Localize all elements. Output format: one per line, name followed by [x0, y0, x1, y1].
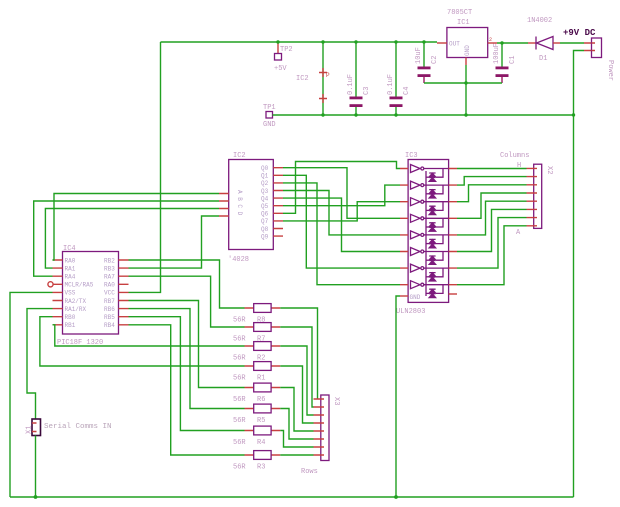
svg-text:VCC: VCC [104, 290, 115, 297]
IC2 power pins riser [296, 42, 330, 115]
wire RA1 to IC2 C [45, 209, 219, 269]
svg-text:C4: C4 [403, 87, 411, 95]
svg-text:R1: R1 [257, 375, 265, 383]
test point TP2 [274, 42, 293, 73]
IC2 output pins Q0-Q9 [261, 165, 283, 240]
svg-text:GND: GND [263, 121, 276, 129]
resistor R6 56R [233, 383, 280, 404]
IC3 internal buffers and diodes [411, 165, 449, 298]
wire RB1 to R2 [53, 325, 245, 346]
wire RX to serial connector [27, 309, 53, 419]
wire Q7 to ULN in3 [283, 202, 400, 221]
wire R7 to rows pin2 [280, 327, 313, 407]
svg-text:56R: 56R [233, 375, 246, 383]
wire ULN out3 to col pin3 [457, 185, 527, 202]
junction dots top rail [276, 40, 503, 44]
resistor R3 56R [233, 451, 280, 472]
svg-text:RB5: RB5 [104, 314, 115, 321]
svg-text:Q8: Q8 [261, 226, 269, 233]
svg-text:7805CT: 7805CT [447, 9, 472, 17]
svg-text:TP1: TP1 [263, 104, 276, 112]
columns connector X2 [500, 152, 553, 237]
wire IC3 GND to bottom rail [396, 296, 400, 497]
wire power connector GND pin down right side [574, 51, 585, 498]
svg-text:Q0: Q0 [261, 165, 269, 172]
wire Q6 to ULN in1 (top bridge) [283, 162, 400, 214]
IC4 pin labels [65, 257, 116, 329]
voltage regulator IC1 7805CT [437, 9, 497, 65]
svg-text:RB0: RB0 [65, 314, 76, 321]
wire GND rail [273, 114, 574, 116]
svg-text:RA4: RA4 [65, 274, 76, 281]
wire RB6 to R5 [129, 309, 245, 409]
svg-text:RB6: RB6 [104, 306, 115, 313]
diode D1 1N4002 [527, 17, 560, 63]
wire Q0 to ULN in4 [283, 168, 400, 219]
svg-text:X1: X1 [26, 426, 34, 434]
svg-text:D1: D1 [539, 55, 547, 63]
wire R2 to rows pin3 [280, 346, 313, 415]
svg-text:RA2/TX: RA2/TX [65, 298, 87, 305]
resistor R1 56R [233, 362, 280, 383]
resistor R5 56R [233, 404, 280, 425]
svg-text:X3: X3 [332, 397, 340, 405]
svg-text:56R: 56R [233, 336, 246, 344]
capacitor C2 10uF [415, 42, 466, 83]
svg-text:ULN2803: ULN2803 [396, 308, 425, 316]
svg-text:56R: 56R [233, 396, 246, 404]
wire regulator GND to rail [465, 65, 467, 115]
svg-text:56R: 56R [233, 317, 246, 325]
resistor R8 56R [233, 304, 280, 325]
svg-text:RA7: RA7 [104, 274, 115, 281]
wire Q1 to ULN in7 [283, 175, 400, 268]
wire Q2 to ULN in8 [283, 183, 400, 285]
wire ULN out6 to col pin6 [457, 209, 527, 251]
svg-text:Q7: Q7 [261, 218, 269, 225]
svg-text:Q6: Q6 [261, 211, 269, 218]
wire Q4 to ULN in6 [283, 198, 400, 251]
wire diode to power connector [560, 42, 584, 44]
svg-text:GND: GND [464, 45, 471, 56]
IC3 COM pin [449, 293, 457, 295]
wire R6 to rows pin5 [280, 388, 313, 432]
svg-text:Q3: Q3 [261, 188, 269, 195]
svg-text:Columns: Columns [500, 152, 529, 160]
svg-text:RA0: RA0 [65, 257, 76, 264]
IC4 left pins [53, 260, 63, 325]
svg-text:GND: GND [410, 294, 421, 301]
svg-text:IC2: IC2 [296, 75, 309, 83]
svg-text:56R: 56R [233, 417, 246, 425]
svg-text:Q9: Q9 [261, 233, 269, 240]
IC3 input pins [400, 169, 408, 285]
svg-text:RB4: RB4 [104, 322, 115, 329]
wire RB3 to IC2 D [129, 216, 220, 268]
IC3 GND pin [400, 295, 408, 297]
svg-text:IC3: IC3 [405, 152, 418, 160]
wire ULN out7 to col pin7 [457, 218, 527, 269]
svg-text:Power: Power [606, 60, 614, 81]
svg-text:0.1uF: 0.1uF [347, 74, 355, 95]
svg-text:1N4002: 1N4002 [527, 17, 552, 25]
driver IC3 ULN2803 [396, 152, 449, 316]
test point TP1 [263, 104, 276, 129]
svg-text:Serial Comms IN: Serial Comms IN [44, 423, 112, 431]
svg-text:C3: C3 [363, 87, 371, 95]
svg-text:56R: 56R [233, 355, 246, 363]
svg-text:RB3: RB3 [104, 265, 115, 272]
IC2 4028 decoder [219, 152, 273, 264]
wire RB4 to R3 [129, 325, 245, 455]
wire ULN out8 to col pin8 [457, 226, 527, 285]
IC3 output pins [449, 169, 457, 285]
svg-text:56R: 56R [233, 439, 246, 447]
wire Q5 to ULN in2 [283, 185, 400, 206]
svg-text:RA1: RA1 [65, 265, 76, 272]
capacitor C4 0.1uF [387, 42, 411, 115]
wire R3 to rows pin8 [280, 454, 313, 456]
wire regulator IN to diode [497, 42, 528, 44]
junction dots bottom rail [34, 495, 398, 499]
wire R1 to rows pin4 [280, 366, 313, 423]
svg-text:R5: R5 [257, 417, 265, 425]
capacitor C3 0.1uF [347, 42, 371, 115]
wire X1 pin2 to ground rail [35, 436, 37, 498]
wire R8 to rows pin1 [280, 308, 317, 399]
svg-text:OUT: OUT [449, 41, 460, 48]
svg-text:Q5: Q5 [261, 203, 269, 210]
svg-text:+9V DC: +9V DC [563, 28, 596, 38]
junction dots GND rail [321, 81, 575, 116]
svg-text:0.1uF: 0.1uF [387, 74, 395, 95]
svg-text:RB2: RB2 [104, 257, 115, 264]
wire RB2 to R8 [129, 260, 245, 308]
wire R4 to rows pin7 [280, 431, 313, 448]
svg-text:C2: C2 [431, 56, 439, 64]
svg-text:R8: R8 [257, 317, 265, 325]
wire RB5 to R4 [129, 317, 245, 431]
svg-text:IC1: IC1 [457, 19, 470, 27]
svg-text:R6: R6 [257, 396, 265, 404]
wire ULN out4 to col pin4 [457, 193, 527, 218]
svg-text:'4028: '4028 [228, 256, 249, 264]
svg-text:A B C D: A B C D [236, 190, 243, 216]
resistor R7 56R [233, 323, 280, 344]
serial connector X1 [26, 419, 112, 436]
wire RA7 to R7 [129, 276, 245, 327]
wire ULN out2 to col pin2 [457, 177, 527, 186]
wire VSS to left border ground [10, 292, 53, 497]
svg-text:Q4: Q4 [261, 195, 269, 202]
svg-text:X2: X2 [545, 166, 553, 174]
svg-text:P: P [326, 72, 330, 79]
wire VCC riser from IC4 to +5V rail [129, 42, 161, 292]
svg-text:C1: C1 [509, 56, 517, 64]
svg-text:RA1/RX: RA1/RX [65, 306, 87, 313]
svg-text:2: 2 [489, 37, 492, 43]
svg-text:100uF: 100uF [493, 43, 501, 64]
svg-text:MCLR/RA5: MCLR/RA5 [65, 282, 94, 289]
IC4 MCLR inversion circle [48, 282, 53, 287]
IC4 right pins [119, 260, 129, 325]
wire ULN out1 to col pin1 [457, 168, 527, 170]
svg-text:RB7: RB7 [104, 298, 115, 305]
svg-text:Q1: Q1 [261, 173, 269, 180]
svg-text:IC2: IC2 [233, 152, 246, 160]
wire +5V top rail [161, 41, 438, 43]
svg-text:IC4: IC4 [63, 245, 76, 253]
wire R5 to rows pin6 [280, 409, 313, 440]
microcontroller IC4 PIC18F1320 [57, 245, 119, 347]
wire RB0 to R1 [40, 317, 245, 366]
wire Q3 to ULN in5 [283, 191, 400, 235]
svg-text:Rows: Rows [301, 468, 318, 476]
wire RA0 to IC2 A [53, 194, 220, 261]
power connector [563, 28, 614, 81]
svg-text:+5V: +5V [274, 65, 287, 73]
svg-text:R4: R4 [257, 439, 265, 447]
svg-text:R3: R3 [257, 464, 265, 472]
wire ULN out5 to col pin5 [457, 201, 527, 235]
svg-text:56R: 56R [233, 464, 246, 472]
svg-text:R7: R7 [257, 336, 265, 344]
resistor R2 56R [233, 342, 280, 363]
svg-text:10uF: 10uF [415, 47, 423, 64]
resistor R4 56R [233, 426, 280, 447]
svg-text:RB1: RB1 [65, 322, 76, 329]
capacitor C1 100uF [466, 43, 517, 83]
svg-text:Q2: Q2 [261, 180, 269, 187]
rows connector X3 [301, 395, 340, 476]
wire RA4 to IC2 B [34, 201, 219, 276]
svg-text:TP2: TP2 [280, 46, 293, 54]
wire RB7 to R6 [129, 301, 245, 388]
wire bottom GND border [10, 496, 574, 498]
svg-text:RA0: RA0 [104, 282, 115, 289]
svg-text:VSS: VSS [65, 290, 76, 297]
